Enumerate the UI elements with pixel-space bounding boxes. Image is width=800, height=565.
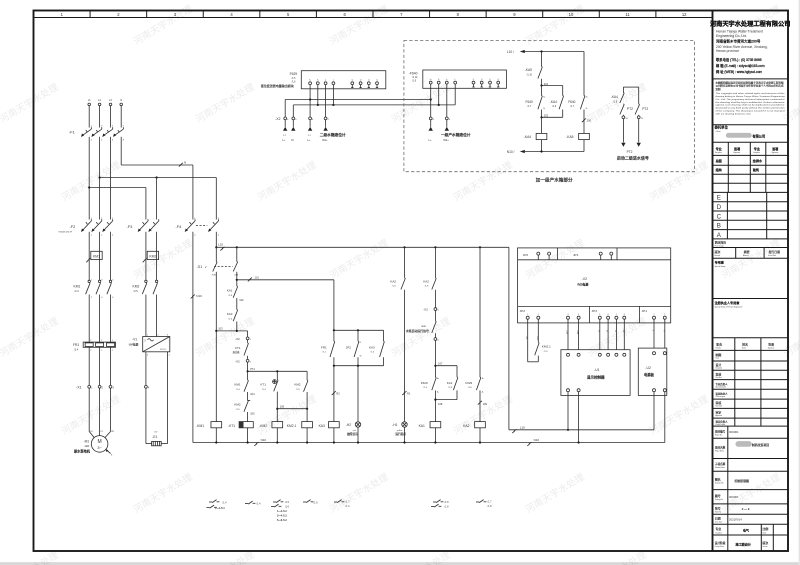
svg-text:电源板: 电源板 [644,372,655,377]
svg-text:职责: 职责 [716,342,722,347]
svg-text:-KM1: -KM1 [196,424,204,428]
svg-text:N10: N10 [261,438,267,442]
svg-text:设总执业人: 设总执业人 [716,392,729,396]
terminal strip X1 (terminals 1-4) [76,385,150,389]
svg-text:D+: D+ [614,330,616,332]
title block: position/name/signature table [713,338,789,426]
svg-text:2: 2 [538,314,539,316]
svg-text:签署: 签署 [772,146,778,151]
wires F640 pins to buses and X2 [430,88,456,117]
svg-text:制图: 制图 [716,352,722,357]
svg-text:D+: D+ [622,330,624,332]
svg-text:the drawing shall be kept conf: the drawing shall be kept confidential. … [716,101,785,104]
title block: discipline/signature table [713,142,789,192]
svg-text:-U2: -U2 [645,366,651,370]
svg-text:-KA5: -KA5 [525,68,532,72]
PT2 contact (right) [635,87,648,116]
svg-text:1: 1 [538,257,539,259]
title block: registered person stamp area [713,300,789,338]
svg-text:联系电话 (TEL) : (0) 3735 8666: 联系电话 (TEL) : (0) 3735 8666 [716,57,762,62]
relay coil KA5 [566,133,589,151]
wires U1 to L10 / N10 [567,392,579,443]
svg-text:有限公司: 有限公司 [752,133,765,138]
time relay coil KT1 [228,412,253,443]
terminal X2:2 [235,356,252,364]
svg-text:-V1: -V1 [132,338,137,342]
svg-text:1: 1 [654,314,655,316]
branch 2: contact F640 /1.7 [568,52,588,111]
contactor coil KM1 [196,422,221,443]
svg-text:加一级产水箱部分: 加一级产水箱部分 [536,176,573,183]
wire phase L3 down to F2 [110,137,112,220]
wire R2 to coil KA3 [332,366,341,422]
svg-text:2: 2 [90,350,91,352]
svg-text:-X1: -X1 [76,386,82,390]
svg-text:专业: 专业 [754,146,760,151]
svg-text:auto: auto [421,325,426,328]
svg-text:/1.6: /1.6 [285,505,290,508]
svg-text:/1.5: /1.5 [285,501,290,504]
svg-text:W: W [360,355,362,357]
svg-text:Scale: Scale [763,532,767,534]
svg-text:RO电源: RO电源 [578,281,589,286]
wires F3 to KM2 contacts [146,232,157,280]
jumper JP2 [346,330,362,357]
terminal X2:3 [423,290,439,312]
parallel contact KA1 /1.8 (self hold) [435,366,457,400]
svg-text:网 址 (WEB) : www.hgtyscl.com: 网 址 (WEB) : www.hgtyscl.com [716,69,762,74]
svg-text:/1.7: /1.7 [488,501,493,504]
rail N10 inside dashed box [507,150,584,154]
svg-text:委托单位: 委托单位 [715,124,729,129]
svg-text:项目名称: 项目名称 [715,446,726,450]
svg-text:N+: N+ [586,97,588,99]
terminal X2:1 [235,331,252,341]
svg-text:The copyright and other relate: The copyright and other related rights a… [716,92,785,95]
PT2 terminals 10 / 11 [622,116,644,120]
svg-text:-KA4: -KA4 [550,100,557,104]
parallel group bottom bus [333,357,384,367]
contact KA3 /1.6 [227,298,238,331]
svg-text:Designed: Designed [716,368,723,370]
svg-text:I+: I+ [325,80,327,82]
svg-text:101: 101 [255,276,260,280]
svg-text:-E1: -E1 [152,435,157,439]
svg-text:UV电源: UV电源 [129,342,139,346]
svg-text:L: L [652,330,654,331]
svg-text:KA2: KA2 [463,424,469,428]
svg-text:FT1: FT1 [235,346,241,350]
svg-text:N10 /: N10 / [507,150,515,154]
PT2 contact (left) [620,104,633,116]
svg-text:L10: L10 [218,243,223,247]
svg-text:-M1: -M1 [84,440,90,444]
svg-text:Discipline: Discipline [753,152,760,154]
svg-text:IN1+: IN1+ [322,138,328,142]
svg-text:M: M [291,138,293,142]
wire tap L2 to F3 right pole and F4 right pole [100,176,217,219]
svg-text:摘要: 摘要 [744,249,750,254]
svg-text:red: red [353,430,356,432]
svg-text:N: N [120,99,122,102]
contactor KM1 main contacts [74,280,115,299]
wire R1 to lamp H1 [402,290,411,422]
svg-text:V+: V+ [309,80,311,82]
rail L10 top [215,232,509,251]
node PT1 bus [247,362,308,372]
parallel contact KA4 /1.9 (self hold) [542,86,564,118]
svg-text:M: M [98,439,102,445]
F640 module pins [429,79,499,88]
svg-text:FR1: FR1 [321,345,327,349]
svg-text:发行日期: 发行日期 [769,249,781,254]
svg-text:109: 109 [483,402,488,406]
svg-text:KM2: KM2 [149,255,156,259]
wire phase L2 down to F2 with tap junction [99,137,101,220]
svg-text:二级水箱液位计: 二级水箱液位计 [320,132,346,137]
thermal overload relay FR1 [73,340,116,352]
svg-text:JP1: JP1 [573,253,579,257]
svg-text:注册执业人专用章: 注册执业人专用章 [715,300,740,305]
UV power supply V1 [129,334,170,352]
svg-text:/2.4: /2.4 [74,348,79,351]
svg-text:Design Phase: Design Phase [715,546,725,548]
junction dots on N10 rail [215,441,580,443]
svg-text:-F1: -F1 [69,130,75,135]
svg-text:V+: V+ [430,79,432,81]
analog module F640 [409,70,507,88]
title block: client row [715,124,766,138]
svg-text:GND: GND [536,336,538,341]
svg-text:200: 200 [587,118,592,122]
KA1 branch: contact KA2 /1.8 [423,246,436,289]
svg-text:-KA5: -KA5 [566,135,573,139]
svg-text:KA2: KA2 [423,279,429,283]
svg-text:12: 12 [682,12,687,17]
svg-text:disclosed to any third party w: disclosed to any third party without the… [716,107,785,110]
svg-text:DC24: DC24 [160,349,166,351]
svg-text:L+: L+ [429,138,432,142]
contact F629 /1.5 [421,377,440,394]
svg-text:JP1: JP1 [642,309,648,313]
svg-text:108: 108 [438,402,443,406]
svg-text:Checked: Checked [716,377,722,379]
svg-text:原水泵电机: 原水泵电机 [74,449,91,454]
svg-text:L10: L10 [520,425,525,429]
svg-text:/1.10: /1.10 [527,75,533,77]
svg-text:/1.8: /1.8 [445,505,450,508]
svg-text:105: 105 [250,411,255,415]
node 200 [582,110,592,134]
svg-text:A+: A+ [482,377,484,380]
ruler band with zone numbers 1-12 [34,11,713,18]
node 109 and relay coil KA2 [463,390,487,442]
svg-text:日期: 日期 [715,515,721,520]
node 108 and relay coil KA1 [419,390,443,442]
relay coil KA3 [319,422,340,443]
svg-text:I+: I+ [446,79,448,81]
wires F629 pins down [310,89,333,117]
svg-text:KM1: KM1 [93,255,100,259]
node 201 [540,82,548,87]
svg-text:drawing belong to Henan Tianyu: drawing belong to Henan Tianyu Water Tre… [716,95,785,98]
svg-text:2022/9/14: 2022/9/14 [729,517,742,521]
svg-text:KM1: KM1 [234,383,241,387]
wire phase L1 down to F2 with tap junction [88,137,90,220]
contact F640 /1.7 (level threshold) [526,86,546,118]
svg-text:1: 1 [112,340,113,342]
svg-text:图号: 图号 [715,493,721,498]
svg-text:Revised: Revised [715,255,721,257]
legend: KA1 contact cross references [431,500,449,509]
svg-text:L10 /: L10 / [507,50,514,54]
svg-text:107: 107 [438,362,443,366]
svg-text:-F3: -F3 [127,224,133,229]
terminal strip X2 (liquid level signals, terminals 4-7) [275,117,329,121]
svg-text:/1.4: /1.4 [257,503,262,506]
contact KA3 /1.6 (branch) [369,330,384,365]
legend: KT1 contact cross references [245,501,261,506]
svg-text:R1: R1 [407,392,411,396]
svg-text:N: N [184,161,186,165]
svg-text:-KT1: -KT1 [228,424,235,428]
svg-text:yellow: yellow [397,430,403,432]
svg-text:104: 104 [250,392,255,396]
svg-text:000001: 000001 [729,430,739,434]
wire N phase to F4 left pole [121,137,193,220]
svg-text:河南省新乡市黄河大道200号: 河南省新乡市黄河大道200号 [716,39,761,44]
PT2 output group: contact KA4 /1.9 [611,87,639,103]
svg-text:JP2: JP2 [520,309,526,313]
svg-text:KM2.1: KM2.1 [287,424,297,428]
svg-text:FR1: FR1 [73,343,79,347]
svg-text:7: 7 [616,314,617,316]
rail L10 inside dashed box [507,50,584,54]
svg-text:3~: 3~ [97,446,102,450]
svg-text:IN2+: IN2+ [443,138,449,142]
svg-text:6: 6 [608,314,609,316]
svg-text:Engineering Co.,Ltd.: Engineering Co.,Ltd. [716,34,747,38]
cable designation box KM1 [86,251,102,262]
caption 加一级产水箱部分 [536,176,573,183]
svg-text:Name: Name [742,348,746,350]
svg-text:-H2: -H2 [346,423,351,427]
svg-text:更改简历: 更改简历 [715,240,727,245]
wire column KM1 coil feed [215,331,217,422]
motor M1 (raw water pump) [74,436,113,457]
contact KA5 /1.10 [525,52,543,86]
svg-text:专业负责人: 专业负责人 [716,382,729,386]
svg-text:一级产水箱液位计: 一级产水箱液位计 [441,132,471,137]
title block: project info rows [713,426,789,524]
svg-text:4kW: 4kW [85,445,91,448]
svg-text:R2: R2 [336,392,340,396]
svg-text:Reviewed: Reviewed [716,406,723,408]
svg-text:1: 1 [90,340,91,342]
svg-text:N10: N10 [196,294,202,298]
legend: KA4 contact cross references [303,500,318,505]
svg-text:专用章: 专用章 [715,260,724,265]
svg-text:F629: F629 [421,381,428,385]
wires FR1 to terminal strip X1 [89,347,110,385]
wire N10 from F4 left pole down and bottom rail N10 [191,232,665,446]
legend: KA5 contact cross references [334,500,350,508]
svg-text:/1.7: /1.7 [346,501,351,504]
svg-text:姓名: 姓名 [742,342,748,347]
svg-text:-X2: -X2 [423,308,428,312]
wire tap L1 to F3 left pole [89,188,146,220]
svg-text:项目负责人: 项目负责人 [716,420,729,424]
contact FR1 /1.1 (fault) [321,330,335,357]
svg-text:给排水: 给排水 [753,158,763,163]
contact KM2 /1.5 (NC interlock) [234,392,255,415]
node 202 [540,114,548,119]
wire node: F629 common bus (to F640) [293,104,455,117]
svg-text:施工图设计: 施工图设计 [736,541,751,546]
svg-text:D+: D+ [606,330,608,332]
svg-text:专业: 专业 [716,146,722,151]
svg-text:4: 4 [147,355,148,357]
svg-text:/1.4: /1.4 [346,505,351,508]
svg-text:JP3: JP3 [592,309,598,313]
svg-text:结构: 结构 [716,167,722,172]
svg-text:10: 10 [569,12,574,17]
auto-run selector contact [406,311,436,333]
breaker F4 (2-pole, control feed) [176,218,220,236]
svg-text:Co., Ltd. The proprietary tech: Co., Ltd. The proprietary technical info… [716,98,785,101]
svg-text:+24: +24 [525,336,527,339]
dashed boundary: added first-stage product tank section [404,41,695,172]
svg-text:11: 11 [625,12,630,17]
svg-text:2 — 3: 2 — 3 [742,507,750,511]
svg-text:水箱自动运行信号: 水箱自动运行信号 [406,328,429,333]
svg-text:3: 3 [568,314,569,316]
pressure switch FT1 [233,340,249,356]
svg-text:3—4 /1.2: 3—4 /1.2 [277,514,287,517]
svg-text:102: 102 [239,298,244,302]
svg-text:KA3: KA3 [227,312,233,316]
relay coil KA4 [524,117,547,151]
svg-text:D: D [717,204,722,211]
svg-text:KA1: KA1 [419,424,425,428]
svg-text:设计: 设计 [716,362,722,367]
svg-text:建筑: 建筑 [753,167,759,172]
UV lamp E1 [152,432,162,446]
svg-text:F640: F640 [526,100,533,104]
svg-text:故障显示: 故障显示 [347,432,358,436]
svg-text:N10: N10 [534,438,540,442]
indicator lamp H2 (fault, red) [346,366,361,443]
breaker F2 (3-pole, motor feed) [59,218,115,236]
svg-text:of the company. The drawing is: of the company. The drawing is issued if… [716,110,785,113]
wire node: F629 V+ bus (to F640) [285,98,431,117]
svg-text:agreed, such drawing shall not: agreed, such drawing shall not be duplic… [716,104,786,107]
svg-text:签署: 签署 [734,146,740,151]
svg-text:Discipline: Discipline [715,532,722,534]
field signal arrows (level transmitter) [282,120,346,142]
KA2 branch: contact F629 /1.6 [465,246,484,393]
wires F2 to KM1 contacts [89,232,110,280]
bottom wire L10 feed [509,247,654,433]
svg-text:-X2: -X2 [235,337,240,341]
svg-text:KA3: KA3 [319,424,325,428]
svg-text:D+: D+ [597,330,599,332]
selector switch S1 (two poles, dashed link) [197,246,239,331]
svg-text:-KA4: -KA4 [524,135,531,139]
svg-text:版次: 版次 [763,540,769,545]
wires KM1 to FR1 [89,295,110,343]
svg-text:审定: 审定 [716,410,722,415]
svg-text:2: 2 [158,334,159,336]
run indication branch: contact KA2 /1.6 [390,246,405,289]
cable designation box KM2 [143,251,159,262]
svg-text:比例: 比例 [763,526,769,531]
svg-text:Henan province: Henan province [716,49,739,53]
title block: revised/abstract/date row [713,248,789,259]
svg-text:202: 202 [544,114,549,118]
breaker F1 (4-pole main breaker) [69,126,125,142]
FR1/JP2/KA3 parallel group top bus [333,280,384,332]
svg-text:项目编号: 项目编号 [715,429,726,433]
svg-text:3: 3 [167,334,168,336]
svg-text:复核: 复核 [716,371,722,376]
svg-text:N+: N+ [543,97,545,99]
svg-text:E: E [717,195,721,202]
contact KM2 /1.5 (branch) [294,371,308,408]
terminal strip X2 (terminals 8-9) [429,117,450,121]
svg-text:电气: 电气 [743,528,749,533]
svg-text:图名: 图名 [715,477,721,482]
svg-text:Client: Client [716,130,721,133]
svg-text:-V2: -V2 [582,277,588,281]
svg-text:1: 1 [147,334,148,336]
wires X1 to motor M1 [89,388,115,437]
svg-text:1—2 /1.1: 1—2 /1.1 [215,507,225,510]
svg-text:邮 箱 (E-mail) : xxtyscl@163.co: 邮 箱 (E-mail) : xxtyscl@163.com [716,63,765,68]
relay coil KM2.1 [287,409,313,443]
svg-text:签署: 签署 [768,342,774,347]
svg-text:KM2: KM2 [294,383,301,387]
svg-text:-F2: -F2 [70,224,76,229]
wires KM2 to soft start V1 [146,295,157,337]
power board U2 [638,323,667,396]
legend: KM2 contact cross references [271,500,290,522]
title block: discipline / design phase rows [713,524,789,550]
svg-text:/2.5: /2.5 [134,290,139,293]
svg-text:专业: 专业 [715,526,721,531]
svg-text:-KA4: -KA4 [611,95,618,99]
analog output module F629 [261,71,386,89]
node 106 bus [276,392,308,422]
svg-text:PT1: PT1 [250,367,255,371]
svg-text:-F640: -F640 [409,71,418,75]
contact KM1 /1.4 (self hold) [234,371,255,396]
node 101 and feeder to FR1/JP2/KA3 group [236,272,334,286]
field signal arrows (product tank level) [429,120,471,142]
svg-text:/2.4: /2.4 [75,290,80,293]
svg-text:-U1: -U1 [594,368,600,372]
svg-text:L+: L+ [307,138,310,142]
svg-text:VGB-63 D56 3P: VGB-63 D56 3P [59,232,73,234]
title block: revision rows E-A [713,192,789,247]
svg-text:/1.10: /1.10 [412,77,418,79]
svg-text:♂: ♂ [205,265,207,269]
svg-text:KM2: KM2 [133,285,140,289]
svg-text:启动二级进水信号: 启动二级进水信号 [617,155,649,161]
svg-text:河南天宇水处理工程有限公司: 河南天宇水处理工程有限公司 [710,20,790,28]
svg-text:5: 5 [599,314,600,316]
svg-text:B: B [717,223,721,230]
